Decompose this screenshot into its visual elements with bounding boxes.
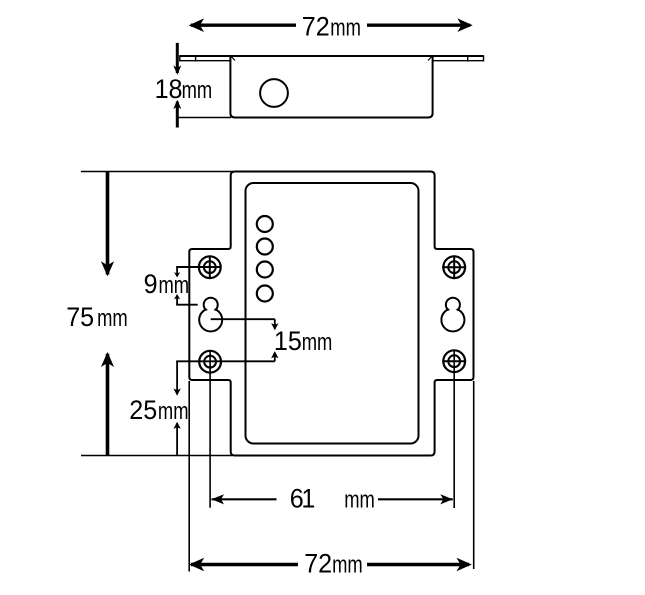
svg-text:75: 75 — [66, 301, 94, 332]
side view body corner chamfer right — [428, 57, 432, 61]
side view flange left end tick — [179, 55, 181, 61]
dimension 15mm: bottom corner shaft — [274, 353, 276, 362]
dimension 15mm: top corner shaft — [274, 319, 276, 329]
dimension 9mm: bottom arrowhead up — [174, 294, 180, 299]
main view top extension line — [81, 171, 233, 173]
side view flange left tick — [195, 56, 197, 62]
dimension 75mm: bottom arrowhead up — [101, 352, 114, 367]
dimension 9mm: top arrowhead down — [174, 272, 180, 277]
svg-text:mm: mm — [330, 13, 361, 41]
screw hole right-top cross vertical — [453, 255, 455, 279]
svg-text:61: 61 — [290, 483, 315, 514]
dimension 72mm bottom: right arrowhead — [457, 558, 472, 572]
svg-text:mm: mm — [182, 75, 213, 103]
screw hole left-top cross horizontal / 9mm reference line — [176, 266, 221, 268]
svg-text:mm: mm — [302, 328, 333, 356]
dimension 75mm: bottom shaft — [106, 354, 110, 456]
dimension 61mm: right arrowhead — [440, 494, 453, 504]
dimension 72mm bottom: left extension line — [188, 381, 190, 572]
dimension 18mm: bottom arrowhead up — [173, 100, 181, 109]
side view flange right end tick — [483, 55, 485, 61]
screw hole left-bottom cross vertical / 61mm left extension line — [209, 351, 211, 508]
side view flange bottom line left — [180, 60, 231, 62]
dimension 18mm: bottom shaft — [176, 102, 179, 128]
side view flange top line — [180, 55, 484, 57]
dimension 72mm top: left arrowhead — [189, 18, 204, 32]
screw hole left-bottom — [199, 351, 221, 373]
screw hole right-top cross horizontal — [442, 266, 466, 268]
dimension 15mm: bottom arrowhead up — [271, 351, 278, 358]
dimension 9mm: top shaft — [176, 267, 178, 276]
LED 4 — [257, 286, 273, 302]
svg-text:mm: mm — [332, 550, 363, 578]
svg-text:mm: mm — [97, 303, 128, 331]
screw hole right-bottom cross horizontal — [442, 360, 466, 362]
dimension 72mm top: line right segment — [367, 24, 470, 27]
dimension 61mm: line left segment — [212, 498, 277, 500]
svg-text:9: 9 — [144, 268, 158, 299]
dimension 72mm top: line left segment — [191, 24, 296, 27]
dimension 72mm bottom: right extension line — [473, 381, 475, 569]
main view bottom extension line — [81, 455, 232, 457]
dimension 15mm: top arrowhead down — [271, 323, 278, 330]
side view flange right tick — [467, 56, 469, 62]
keyhole slot left — [204, 298, 218, 312]
LED 3 — [257, 262, 273, 278]
dimension 75mm: top shaft — [106, 172, 110, 275]
main view inner cover rounded rect — [246, 183, 419, 444]
svg-text:mm: mm — [344, 485, 375, 513]
dimension 25mm: top shaft — [176, 361, 178, 394]
svg-text:18: 18 — [155, 73, 183, 104]
svg-text:72: 72 — [304, 548, 332, 579]
screw hole left-top cross vertical — [209, 256, 211, 280]
screw hole right-top — [443, 256, 465, 278]
dimension 18mm: top arrowhead down — [173, 66, 181, 75]
screw hole right-bottom — [443, 350, 465, 372]
dimension 18mm: top shaft — [176, 43, 179, 73]
svg-text:72: 72 — [302, 11, 330, 42]
dimension 25mm: top arrowhead down — [173, 389, 180, 396]
side view bottom extension line — [179, 117, 232, 119]
dimension 72mm top: right arrowhead — [457, 18, 472, 32]
side view body outline — [230, 56, 432, 118]
svg-text:mm: mm — [159, 270, 190, 298]
svg-text:mm: mm — [158, 396, 189, 424]
dimension 9mm: bottom shaft — [176, 296, 178, 305]
side view flange bottom line right — [433, 60, 484, 62]
dimension 25mm: bottom shaft — [176, 423, 178, 455]
side view circle — [260, 79, 288, 107]
main view body outline with mounting ears — [189, 172, 473, 456]
LED 1 — [257, 216, 273, 232]
screw hole right-bottom cross vertical / 61mm right extension line — [453, 350, 455, 508]
dimension 61mm: line right segment — [378, 498, 453, 500]
dimension 61mm: left arrowhead — [212, 494, 225, 504]
dimension 75mm: top arrowhead down — [101, 261, 114, 276]
LED 2 — [257, 239, 273, 255]
dimension 15mm: upper reference line from keyhole — [211, 318, 275, 320]
svg-text:15: 15 — [274, 325, 302, 356]
svg-text:25: 25 — [129, 394, 157, 425]
screw hole left-top — [199, 256, 221, 278]
keyhole slot right — [446, 298, 460, 312]
screw hole left-bottom cross horizontal / 15mm lower reference line — [176, 360, 275, 362]
dimension 72mm bottom: line right segment — [367, 563, 469, 566]
dimension 9mm: lower reference line to keyhole — [176, 304, 198, 306]
dimension 72mm bottom: line left segment — [191, 563, 298, 566]
side view body corner chamfer left — [231, 57, 235, 61]
dimension 25mm: bottom arrowhead up — [173, 422, 180, 429]
dimension 72mm bottom: left arrowhead — [189, 558, 204, 572]
